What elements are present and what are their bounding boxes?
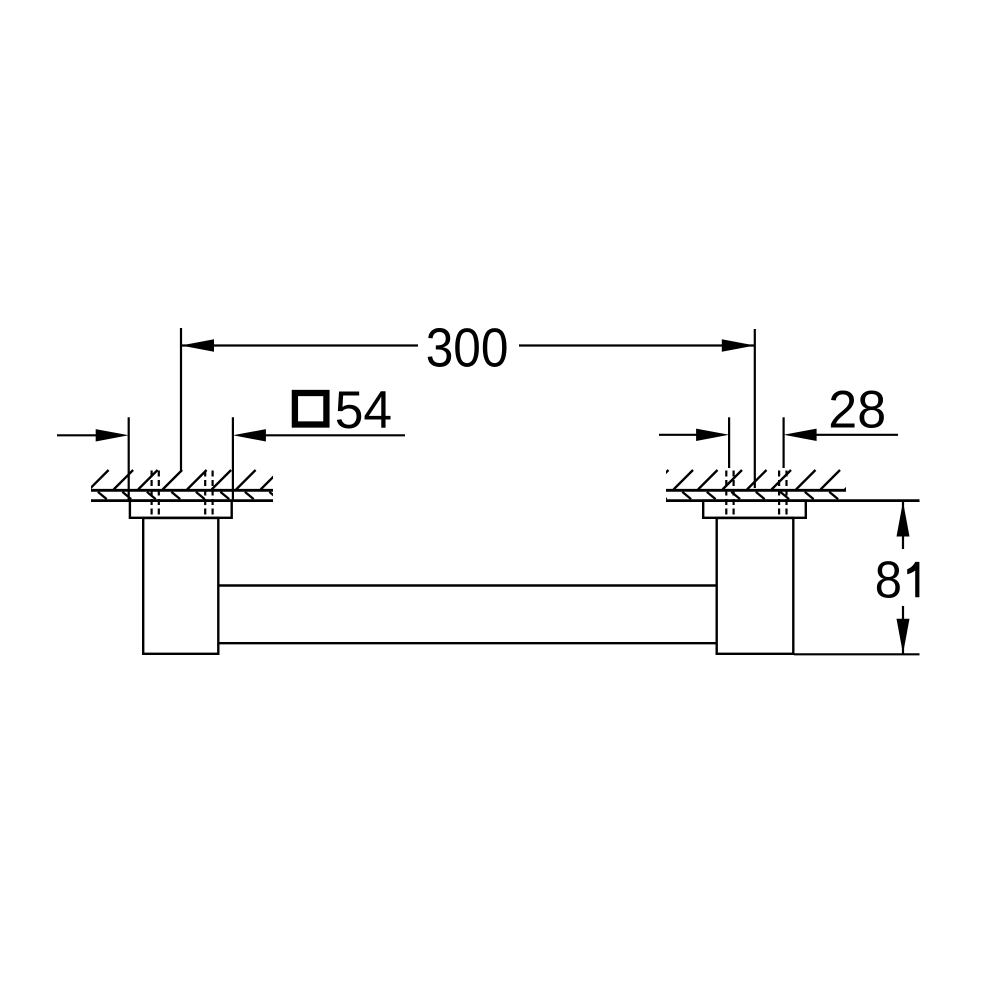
dimension 300 arrow left <box>181 339 214 351</box>
screw hole left mount (dashed pair 2) <box>205 471 212 519</box>
wall hatching right <box>649 470 865 499</box>
svg-text:28: 28 <box>828 381 886 439</box>
screw hole left mount (dashed pair 1) <box>152 471 159 519</box>
center line left mount <box>180 328 182 472</box>
left mounting post <box>143 518 218 654</box>
dimension 28 arrow right <box>784 429 817 441</box>
dimension 300 arrow right <box>722 339 755 351</box>
wall surface line right (top) <box>666 489 846 492</box>
wall surface line right (bottom, extends as 81 dim extension) <box>666 499 920 502</box>
right wall flange plate <box>703 501 806 518</box>
label 81 digit 1 <box>907 562 919 597</box>
right mounting post <box>717 518 794 654</box>
dimension 81 arrow down <box>897 619 910 654</box>
dimension 300 line right segment <box>519 344 755 346</box>
dimension 81 arrow up <box>897 502 910 537</box>
screw hole right mount (dashed pair 2) <box>779 471 786 519</box>
svg-text:300: 300 <box>426 318 509 379</box>
towel bar top edge <box>219 584 717 586</box>
dimension 28 extension line left <box>728 417 730 468</box>
wall hatching left <box>89 470 280 499</box>
dimension 54 left tail line <box>57 434 100 436</box>
dimension 81 bottom extension line <box>794 653 920 655</box>
screw hole right mount (dashed pair 1) <box>726 471 733 519</box>
wall surface line left (bottom) <box>91 499 273 502</box>
dimension 28 right tail line <box>810 434 898 436</box>
dimension 81 upper shaft <box>902 502 904 550</box>
dimension 300 line left segment <box>181 344 418 346</box>
dimension 54 extension line left <box>128 417 130 500</box>
dimension 54 arrow left <box>96 429 129 441</box>
dimension 54 extension line right <box>232 417 234 500</box>
dimension 28 extension line right <box>782 417 784 468</box>
dimension 81 lower shaft <box>902 606 904 654</box>
towel bar bottom edge <box>219 642 717 644</box>
center line right mount <box>754 329 756 488</box>
square profile symbol <box>295 393 327 425</box>
wall surface line left (top) <box>91 489 273 492</box>
dimension 54 right tail line <box>260 434 405 436</box>
left wall flange plate <box>130 501 232 518</box>
dimension 28 arrow left <box>696 429 729 441</box>
dimension 28 left tail line <box>659 434 700 436</box>
svg-text:54: 54 <box>335 381 392 440</box>
svg-text:8: 8 <box>875 550 902 609</box>
dimension 54 arrow right <box>233 429 266 441</box>
